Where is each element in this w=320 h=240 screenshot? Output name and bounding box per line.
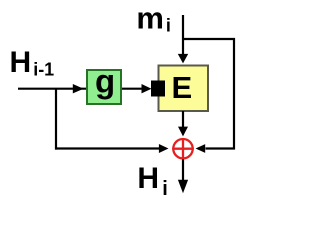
- wire branch from H_i-1 down to bottom: [55, 89, 57, 150]
- wire m_i branch right and down to XOR: [183, 39, 234, 153]
- wire m_i down into E: [178, 15, 188, 63]
- port square on E input: [151, 81, 165, 97]
- node m_i label: [136, 1, 171, 36]
- wire g to E arrowhead: [142, 84, 152, 93]
- svg-text:g: g: [95, 63, 115, 100]
- wire E down into XOR: [178, 111, 188, 136]
- svg-text:i-1: i-1: [33, 60, 54, 80]
- wire XOR output H_i: [178, 160, 188, 194]
- svg-text:E: E: [172, 70, 193, 105]
- block g: [87, 63, 121, 105]
- xor circle: [172, 138, 194, 159]
- wire bottom feed-forward into XOR: [55, 144, 169, 153]
- svg-text:H: H: [10, 46, 32, 79]
- svg-text:m: m: [136, 1, 164, 36]
- svg-text:i: i: [166, 16, 171, 36]
- wire H_i-1 input into g: [18, 84, 144, 93]
- node H_i label: [137, 162, 167, 200]
- svg-text:i: i: [162, 178, 168, 200]
- block E: [159, 66, 209, 112]
- node H_i-1 label: [10, 46, 55, 80]
- svg-text:H: H: [137, 162, 159, 195]
